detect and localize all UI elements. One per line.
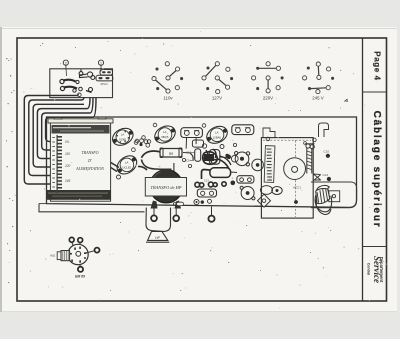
- capacitor C7: [195, 149, 201, 162]
- voltage setting 110v: [152, 62, 183, 93]
- svg-text:UZ4E: UZ4E: [119, 138, 126, 142]
- wire 1: [24, 96, 78, 185]
- svg-text:4052A: 4052A: [100, 82, 108, 86]
- tuning drum: [284, 158, 306, 180]
- HP transfo lead left: [153, 205, 155, 215]
- tuner terminals C10: [326, 154, 330, 158]
- svg-text:Central: Central: [367, 263, 371, 275]
- svg-text:110: 110: [65, 152, 70, 156]
- resistor R6: [210, 168, 231, 178]
- voltage setting 245V: [303, 62, 334, 94]
- svg-text:Page 4: Page 4: [373, 51, 382, 80]
- transformer bottom dark band: [46, 190, 111, 200]
- scattered callout circles: [135, 123, 236, 167]
- voltage setting 220V: [252, 62, 284, 93]
- svg-text:2: 2: [65, 61, 67, 65]
- dial pulley small: [261, 186, 273, 195]
- svg-text:EM 85: EM 85: [75, 274, 85, 278]
- svg-text:C9: C9: [186, 159, 190, 163]
- wire 2: [29, 100, 81, 176]
- callout cluster near V4: [132, 139, 150, 152]
- voltage selector box: [50, 69, 113, 98]
- svg-text:Câblage supérieur: Câblage supérieur: [371, 111, 382, 229]
- rear speaker frame: [311, 182, 357, 208]
- wire risers into selector: [77, 94, 79, 96]
- socket leads: [72, 242, 73, 246]
- mains transformer TRANSFO D ALIMENTATION: [46, 117, 113, 201]
- svg-text:LA: LA: [125, 161, 129, 165]
- svg-text:UCL82: UCL82: [122, 166, 131, 170]
- loudspeaker HP (front): [146, 232, 169, 243]
- svg-text:TRANSFO: TRANSFO: [81, 150, 98, 155]
- laminate edge marks: [52, 137, 55, 188]
- terminal ring row: [195, 182, 226, 187]
- small caps near J3: [194, 199, 212, 204]
- svg-text:127V: 127V: [212, 96, 222, 101]
- transformer top dark band: [52, 125, 110, 134]
- title block divider under Page 4: [363, 91, 387, 93]
- tuner terminal C14: [327, 177, 331, 181]
- callout 2: [63, 60, 68, 65]
- trimmer P3: [240, 186, 255, 200]
- svg-text:R5: R5: [169, 152, 173, 156]
- trimmer P2: [252, 159, 264, 171]
- title block divider vertical: [362, 38, 364, 301]
- rear speaker bracket: [329, 191, 340, 202]
- svg-text:HP: HP: [155, 236, 160, 240]
- selector contact levers: [60, 79, 93, 92]
- junction dots: [139, 143, 142, 146]
- svg-text:1: 1: [100, 61, 102, 65]
- wire 6: [46, 117, 93, 141]
- wire to loudspeaker along bottom: [39, 204, 145, 212]
- scan left edge shadow: [0, 27, 2, 312]
- svg-text:Service: Service: [372, 256, 382, 283]
- svg-text:LA: LA: [163, 130, 167, 134]
- wire 5: [42, 113, 90, 150]
- terminal T2: [173, 215, 179, 221]
- connector J3: [197, 189, 216, 197]
- capacitor C8: [209, 150, 220, 165]
- wire 4: [37, 109, 87, 159]
- resistor R5: [160, 148, 190, 158]
- wire terminal at selector: [78, 93, 82, 97]
- svg-text:220V: 220V: [263, 96, 273, 101]
- drawing frame: [17, 38, 387, 301]
- svg-text:LA: LA: [121, 133, 125, 137]
- terminal T3: [211, 207, 213, 216]
- rectifier tube socket V1: [109, 125, 136, 149]
- lone tube socket V5: [49, 237, 100, 278]
- socket connector shell: [61, 251, 70, 261]
- small circle below V4: [117, 175, 121, 179]
- output tube socket V2: [152, 123, 179, 147]
- cluster small parts: [202, 144, 238, 185]
- output transformer TRANSFO de HP on speaker magnet: [145, 169, 186, 209]
- clamp X: [313, 174, 320, 181]
- terminal T1: [151, 215, 157, 221]
- tube socket V4: [113, 152, 140, 178]
- svg-text:D': D': [87, 158, 92, 163]
- fuse holder: [177, 202, 184, 205]
- svg-text:12BA6: 12BA6: [213, 136, 222, 140]
- connector J1: [181, 128, 203, 149]
- chassis outline: [47, 117, 357, 207]
- svg-text:ALIMENTATION: ALIMENTATION: [75, 166, 104, 171]
- paper top edge shadow: [2, 28, 397, 30]
- transformer top flange: [48, 119, 113, 123]
- mounting tab A: [263, 128, 275, 138]
- HP transfo lead right: [175, 206, 177, 215]
- small circled callouts near tuner: [266, 137, 270, 141]
- heater wiring harness: [138, 151, 193, 173]
- svg-text:ACC1: ACC1: [292, 186, 301, 190]
- tube socket V3: [204, 123, 231, 147]
- mounting tab B: [319, 123, 329, 137]
- svg-text:A01: A01: [49, 254, 56, 258]
- callout 1: [98, 60, 103, 65]
- voltage setting 127V: [202, 62, 233, 94]
- svg-text:6BQ5: 6BQ5: [161, 135, 169, 139]
- tuning pulley P1: [235, 152, 250, 167]
- tuner unit box: [261, 138, 313, 219]
- wire bundle from selector to mains transformer: [24, 94, 96, 185]
- svg-text:C13: C13: [204, 179, 209, 183]
- paper bottom edge shadow: [2, 311, 397, 313]
- svg-text:C10: C10: [324, 150, 330, 154]
- selector rotor: [79, 69, 95, 79]
- tuner terminal strip: [264, 146, 275, 183]
- terminal strip comb: [57, 135, 63, 193]
- connector J4: [237, 176, 254, 183]
- svg-text:C14: C14: [323, 173, 329, 177]
- svg-text:TRANSFO de HP: TRANSFO de HP: [151, 185, 182, 190]
- svg-text:245 V: 245 V: [312, 96, 324, 101]
- svg-text:110v: 110v: [163, 96, 173, 101]
- svg-text:LA: LA: [215, 131, 219, 135]
- connector J2: [232, 125, 254, 135]
- mounting plate: [192, 140, 203, 147]
- leads transformer to V4: [111, 163, 119, 168]
- diamond mount: [257, 194, 270, 207]
- selector plug 4052A upper: [100, 70, 113, 76]
- rear loudspeaker cone: [315, 185, 332, 214]
- svg-text:245: 245: [64, 179, 71, 183]
- oscillator coil L1: [305, 144, 315, 174]
- wire 3: [33, 104, 84, 167]
- scan speckles: [6, 31, 387, 308]
- title block divider above Departement: [363, 246, 387, 248]
- dark junction dot: [225, 154, 229, 158]
- volume control cluster: [203, 149, 231, 169]
- stray pen mark: [345, 99, 349, 102]
- svg-text:220: 220: [64, 164, 71, 168]
- selector plug lower: [96, 75, 113, 81]
